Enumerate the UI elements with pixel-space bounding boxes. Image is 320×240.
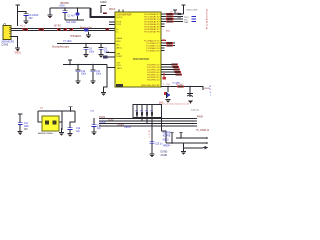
connector J1 USB xyxy=(4,24,6,26)
ground crystal right xyxy=(61,128,63,132)
pin stub g2 row4 xyxy=(161,47,165,49)
ground Q2 xyxy=(188,100,193,104)
svg-text:RST: RST xyxy=(117,41,122,43)
junction rail2 C11 xyxy=(92,64,94,66)
wire USB D+ xyxy=(11,28,115,30)
svg-text:TDO2: TDO2 xyxy=(99,121,106,124)
svg-text:R: R xyxy=(206,21,208,24)
svg-text:R: R xyxy=(206,10,208,13)
svg-text:XTO: XTO xyxy=(117,65,122,67)
wire rail1 xyxy=(57,43,115,45)
svg-text:B: B xyxy=(210,86,212,88)
svg-text:P4.6/PB.6 43: P4.6/PB.6 43 xyxy=(147,80,160,82)
pin stubs IC top xyxy=(119,10,123,13)
crystal Y1 xyxy=(42,116,59,131)
svg-text:R7 1M: R7 1M xyxy=(176,84,183,86)
svg-text:Y1: Y1 xyxy=(40,108,44,110)
wire right g2 row3 xyxy=(161,45,175,47)
node blob pins xyxy=(103,56,108,59)
capacitor C1 xyxy=(64,8,66,10)
svg-text:R: R xyxy=(149,131,151,133)
svg-text:R1 1k: R1 1k xyxy=(20,26,27,28)
svg-text:P4.1/PB.1 38: P4.1/PB.1 38 xyxy=(147,67,160,69)
svg-text:C8: C8 xyxy=(89,49,93,51)
wire right row3 xyxy=(161,18,183,20)
svg-text:A10/RE: A10/RE xyxy=(163,132,171,135)
wire Q1 stem xyxy=(167,87,169,93)
op-amp U1 main IC body xyxy=(115,12,161,87)
svg-text:Cap 10uF: Cap 10uF xyxy=(66,22,77,24)
svg-text:TDI3: TDI3 xyxy=(108,119,114,122)
svg-text:CON5: CON5 xyxy=(2,44,9,47)
wire POR rail xyxy=(161,87,203,91)
svg-text:MSP430F5528: MSP430F5528 xyxy=(133,58,150,61)
pin pad bottom-left xyxy=(116,84,123,87)
svg-text:PU: PU xyxy=(167,84,170,86)
svg-text:C10: C10 xyxy=(81,71,86,73)
wire VBUS rail xyxy=(50,7,91,9)
junction rail2 power xyxy=(69,64,71,66)
capacitor C14 xyxy=(18,122,23,125)
ground shield xyxy=(15,48,20,52)
power symbol crystal xyxy=(68,105,72,108)
svg-text:USB-MICRO: USB-MICRO xyxy=(1,42,14,44)
power symbol rail2 xyxy=(68,58,72,61)
svg-text:P4.4/PB.4 41: P4.4/PB.4 41 xyxy=(147,75,160,77)
svg-text:TDO: TDO xyxy=(184,17,189,19)
svg-text:C24: C24 xyxy=(90,111,95,113)
wire crystal right xyxy=(59,111,62,130)
wire rail2 down xyxy=(104,68,108,93)
svg-text:Decoupling caps: Decoupling caps xyxy=(52,46,70,48)
power symbol aux top-right xyxy=(181,4,185,7)
svg-text:AF-R2: AF-R2 xyxy=(54,24,61,27)
resistor blob near IC xyxy=(106,28,110,31)
ground RST xyxy=(150,154,155,158)
wire bottom link xyxy=(65,19,84,21)
svg-text:P4.2/PB.2 39: P4.2/PB.2 39 xyxy=(147,70,160,72)
svg-text:(Option): (Option) xyxy=(191,109,199,112)
pin label right rows group1 xyxy=(144,13,160,34)
svg-text:DVCC: DVCC xyxy=(117,17,123,19)
transistor Q1 xyxy=(164,92,167,95)
svg-text:+5V0: +5V0 xyxy=(59,6,65,8)
resistor stair RN3 xyxy=(172,64,178,66)
pin stub g2 row5 xyxy=(161,50,165,52)
svg-text:1: 1 xyxy=(210,95,212,97)
pin label right rows group3 xyxy=(141,65,160,88)
capacitor C8 xyxy=(85,44,87,48)
label RST vertical xyxy=(149,131,151,139)
svg-text:E: E xyxy=(206,27,208,30)
resistor network box xyxy=(133,105,162,118)
wire USB D- xyxy=(11,30,115,32)
wire crystal rail xyxy=(38,110,75,112)
wire pins pair stub xyxy=(106,53,115,58)
junction rail1 C8 xyxy=(85,43,87,45)
svg-text:ABM3B 16MHz: ABM3B 16MHz xyxy=(38,132,53,135)
wire branch to C6 xyxy=(18,11,26,13)
transistor Q2 xyxy=(187,94,193,98)
svg-text:DGND: DGND xyxy=(161,152,168,154)
svg-text:TB0.6: TB0.6 xyxy=(124,126,131,129)
svg-text:XIN: XIN xyxy=(117,54,121,56)
svg-text:E: E xyxy=(206,12,208,15)
ferrite bead FB1 xyxy=(84,28,89,31)
vertical blue text right xyxy=(210,86,212,97)
power symbol VCC top-left xyxy=(16,4,20,7)
svg-text:16V: 16V xyxy=(24,129,29,131)
svg-text:C11: C11 xyxy=(96,71,101,73)
svg-text:S: S xyxy=(149,134,151,136)
resistor R4 series xyxy=(63,28,67,31)
junction dots xyxy=(180,137,182,139)
ground at rail start xyxy=(49,8,51,15)
capacitor C12 xyxy=(68,126,73,129)
ground Q1 xyxy=(166,99,171,103)
pin label right rows group2 xyxy=(144,40,160,53)
pin stub row6 xyxy=(161,26,165,28)
wire right row1 xyxy=(161,13,184,15)
svg-text:C7 100n: C7 100n xyxy=(63,41,72,43)
svg-text:P4.3/PB.3 40: P4.3/PB.3 40 xyxy=(147,72,160,74)
svg-text:P4.5/PB.5 42: P4.5/PB.5 42 xyxy=(147,77,160,79)
junction VBUS C1 xyxy=(64,7,66,9)
resistor R2 series pair xyxy=(39,28,45,31)
capacitor C6 xyxy=(24,12,29,15)
svg-text:S: S xyxy=(210,92,212,94)
wire right g2 row1 xyxy=(161,40,166,42)
wire rail2 xyxy=(63,64,107,66)
resistor R7 1M xyxy=(177,85,184,87)
svg-text:T: T xyxy=(149,137,151,139)
ground C9 xyxy=(99,54,104,58)
capacitor C9 xyxy=(100,44,102,48)
svg-text:TDI: TDI xyxy=(184,20,188,22)
wire RST vertical xyxy=(151,118,153,154)
wire right row2 xyxy=(161,16,183,18)
capacitor C11 xyxy=(92,65,94,70)
wire br row1 xyxy=(176,137,206,139)
ground C10 xyxy=(76,80,81,84)
svg-text:AGND: AGND xyxy=(161,154,168,157)
resistor R6 xyxy=(103,12,107,14)
svg-text:VBUS5V: VBUS5V xyxy=(60,3,70,5)
svg-text:C1 4u7: C1 4u7 xyxy=(68,16,76,18)
capacitor C13 xyxy=(93,118,95,125)
svg-text:v: v xyxy=(163,29,165,31)
power symbol br2 xyxy=(179,131,183,134)
junction crystal right xyxy=(61,121,62,122)
svg-text:E: E xyxy=(206,18,208,21)
svg-text:TMS: TMS xyxy=(184,22,189,24)
junction POR Q1 xyxy=(167,86,168,87)
svg-text:VREF+: VREF+ xyxy=(163,145,171,147)
wire right row4 xyxy=(161,21,183,23)
node blue marks xyxy=(192,16,197,17)
svg-text:C14: C14 xyxy=(24,123,29,125)
capacitor C2 polarized xyxy=(76,12,80,15)
ground mid xyxy=(101,92,106,96)
wire bracket xyxy=(101,6,106,14)
bus end arrows right xyxy=(206,137,209,144)
svg-text:JP: JP xyxy=(170,11,173,13)
power symbol br1 xyxy=(170,131,174,134)
wire right g3 rows xyxy=(161,64,172,66)
svg-text:TCK1: TCK1 xyxy=(99,116,106,119)
svg-text:C9: C9 xyxy=(104,49,108,51)
svg-text:PWM: PWM xyxy=(197,116,203,118)
power symbol 3V3 top-right xyxy=(173,9,177,12)
ground C11 xyxy=(91,80,96,84)
pin label left rows xyxy=(117,17,124,70)
svg-text:100n: 100n xyxy=(96,74,102,76)
resistor R3 series xyxy=(57,28,61,31)
resistor RN2a xyxy=(166,42,173,44)
wire crystal left xyxy=(38,111,42,122)
svg-text:100n: 100n xyxy=(89,51,95,53)
svg-text:V: V xyxy=(206,24,208,27)
svg-text:ResistorSel: ResistorSel xyxy=(80,26,92,29)
capacitor C10 xyxy=(77,65,79,70)
wire rail2 to IC pin xyxy=(107,65,115,68)
svg-text:P4.0/PB.0 37: P4.0/PB.0 37 xyxy=(147,65,160,67)
wire right g2 row2 xyxy=(161,42,175,44)
svg-text:GND2: GND2 xyxy=(100,1,107,4)
svg-text:GND1: GND1 xyxy=(15,53,22,55)
svg-text:100n: 100n xyxy=(24,126,30,128)
svg-text:25V: 25V xyxy=(29,18,34,20)
pin stub row5 xyxy=(161,23,165,25)
vertical red text right edge xyxy=(206,10,208,30)
ground bottom right xyxy=(183,148,185,151)
resistor RN2b xyxy=(166,45,173,47)
svg-text:12p: 12p xyxy=(97,128,102,130)
svg-text:NC: NC xyxy=(117,44,121,46)
ground C14 xyxy=(18,131,23,135)
svg-text:S: S xyxy=(206,15,208,18)
svg-text:TMS4: TMS4 xyxy=(117,124,124,127)
svg-text:C12: C12 xyxy=(76,128,81,130)
svg-text:XOUT: XOUT xyxy=(117,56,124,58)
wire red stub below xyxy=(163,73,165,79)
svg-text:VBUS: VBUS xyxy=(117,38,123,40)
pin stub left rows xyxy=(109,22,115,25)
svg-text:MCU1: MCU1 xyxy=(109,9,116,11)
bus wires xyxy=(99,117,196,119)
ground C13 xyxy=(92,131,97,135)
resistor R1 series pair xyxy=(23,28,29,31)
capacitor C15 on RST xyxy=(150,140,155,143)
svg-text:BSL: BSL xyxy=(166,30,171,32)
wire rail corner to IC xyxy=(91,8,116,17)
node pads rows1-2 xyxy=(178,13,182,15)
svg-text:U: U xyxy=(210,89,212,91)
svg-text:DVCC 3V3: DVCC 3V3 xyxy=(187,9,198,11)
wire VCC stem xyxy=(17,5,19,26)
svg-text:C15 1n: C15 1n xyxy=(155,143,163,145)
svg-text:DNP: DNP xyxy=(159,102,164,104)
wire box right down xyxy=(162,118,167,144)
resistor R5 series xyxy=(70,28,73,31)
svg-text:12p: 12p xyxy=(76,131,81,133)
svg-text:A11/RE: A11/RE xyxy=(163,135,171,138)
resistor RN4 columns xyxy=(135,105,139,119)
resistor red mark g2r1 xyxy=(162,40,165,42)
svg-text:TP_PWM 12: TP_PWM 12 xyxy=(196,130,210,132)
ground below C6 xyxy=(24,21,29,25)
junction POR Q2 xyxy=(189,86,190,87)
svg-text:1: 1 xyxy=(163,84,165,86)
bus end ticks xyxy=(194,118,197,119)
wire shield to ground xyxy=(11,37,18,48)
junction rail1 C9 xyxy=(100,43,102,45)
ground C8 xyxy=(84,54,89,58)
resistor array RN1 xyxy=(166,13,174,15)
wire Q2 stem xyxy=(189,87,191,94)
svg-text:D-: D- xyxy=(117,31,120,33)
junction crystal rail xyxy=(70,110,72,112)
junction VBUS C2 xyxy=(77,7,79,9)
junction rail2 C10 xyxy=(77,64,79,66)
svg-text:C6 100nF: C6 100nF xyxy=(29,15,40,17)
ground C12 xyxy=(68,133,73,137)
svg-text:100n: 100n xyxy=(81,74,87,76)
wire xtal cap branch xyxy=(70,111,75,127)
wire br row3 xyxy=(184,143,204,148)
ground stub from bead xyxy=(88,31,90,34)
svg-text:TEST: TEST xyxy=(117,68,123,70)
power symbol left-bottom xyxy=(18,113,22,116)
svg-text:TPD2E001: TPD2E001 xyxy=(70,36,82,38)
wire br row2 xyxy=(166,142,206,144)
